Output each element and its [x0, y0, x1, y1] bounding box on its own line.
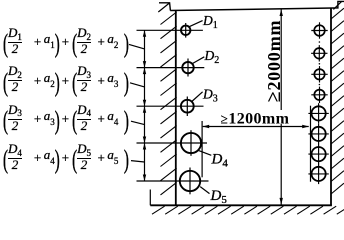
svg-text:D5: D5: [210, 188, 228, 206]
svg-text:≥2000mm: ≥2000mm: [263, 20, 285, 103]
svg-text:≥1200mm: ≥1200mm: [221, 110, 290, 127]
svg-text:D4: D4: [211, 151, 229, 169]
svg-text:D2: D2: [204, 48, 220, 66]
svg-text:D3: D3: [202, 87, 218, 105]
svg-text:D1: D1: [202, 13, 218, 31]
